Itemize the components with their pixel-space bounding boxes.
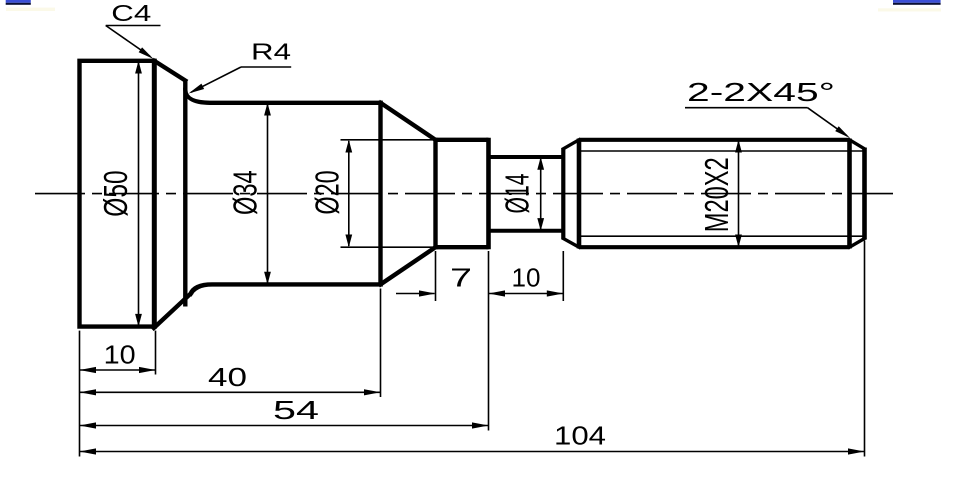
svg-text:M20X2: M20X2 [698, 157, 736, 232]
arrow Ø20 top [345, 140, 352, 153]
flange right face [152, 59, 157, 329]
dimension Ø50 line [138, 62, 140, 325]
collar Ø20 top [436, 138, 489, 142]
Ø34 right face [378, 101, 382, 287]
svg-text:Ø20: Ø20 [309, 170, 347, 214]
svg-text:C4: C4 [111, 0, 151, 26]
leader C4 [106, 26, 161, 62]
arrow 10 left [80, 367, 97, 373]
extension line at x380.5 [380, 289, 382, 398]
flange Ø50 outline [80, 61, 155, 327]
blue bar top-right [878, 0, 941, 12]
right chamfer circle line [847, 139, 852, 249]
svg-text:Ø14: Ø14 [499, 174, 537, 214]
arrow 40 left [80, 389, 97, 395]
arrow 7 [419, 290, 436, 296]
taper top [381, 103, 436, 140]
leader R4 [187, 67, 291, 96]
svg-text:2-2X45°: 2-2X45° [687, 77, 835, 107]
thread right end face [862, 148, 867, 240]
dimension 10 (neck) line [489, 293, 564, 295]
extension lines Ø20 [341, 140, 434, 247]
thread minor diameter top (thin) [580, 150, 865, 152]
svg-text:10: 10 [512, 263, 541, 293]
left chamfer circle line [577, 139, 582, 249]
arrow 104 left [80, 448, 97, 454]
extension line at x563.3 [562, 251, 564, 301]
arrow Ø14 top [537, 157, 544, 170]
svg-text:54: 54 [273, 395, 319, 425]
dimension 54 line [80, 425, 489, 427]
collar Ø20 bottom [436, 245, 489, 249]
left chamfer top edge [563, 140, 579, 149]
right chamfer top edge [850, 140, 865, 149]
extension line at x488.5 [488, 251, 490, 431]
chamfer C4 bottom edge [154, 294, 191, 328]
arrow Ø50 top [135, 61, 142, 74]
arrow Ø14 bottom [537, 218, 544, 231]
extension line at x79.5 [79, 331, 81, 457]
svg-text:Ø50: Ø50 [97, 170, 135, 216]
svg-text:40: 40 [208, 362, 247, 392]
arrow Ø50 bottom [135, 314, 142, 327]
arrow M20X2 top [735, 140, 742, 153]
dimension 104 line [80, 451, 865, 453]
arrow 10 right [139, 367, 156, 373]
dimension 7 line [396, 293, 435, 295]
arrow Ø20 bottom [345, 235, 352, 248]
arrow 54 left [80, 422, 97, 428]
arrow M20X2 bottom [735, 235, 742, 248]
extension line at x435.5 [435, 251, 437, 301]
dimension Ø14 line [540, 158, 542, 230]
dimension 40 line [80, 391, 381, 393]
arrow 10 neck right [547, 290, 564, 296]
arrow 10 neck left [489, 290, 506, 296]
shoulder face [183, 80, 187, 307]
right chamfer bottom edge [850, 239, 865, 248]
arrow Ø34 top [264, 103, 271, 116]
arrow 104 right [848, 448, 865, 454]
left chamfer bottom edge [563, 239, 579, 248]
dimension 10 (flange) line [80, 369, 156, 371]
blue bar top-left [6, 0, 55, 11]
Ø34 top line with R4 fillet [185, 90, 380, 103]
svg-text:R4: R4 [251, 39, 291, 65]
leader 2-2X45 [685, 108, 852, 141]
collar Ø20 right face [486, 138, 491, 250]
collar Ø20 left face [433, 138, 437, 249]
neck Ø14 top [489, 155, 564, 159]
thread left end face [561, 149, 565, 239]
svg-text:104: 104 [554, 420, 606, 450]
svg-text:7: 7 [450, 263, 472, 293]
thread major diameter top [579, 138, 850, 142]
thread minor diameter bottom (thin) [580, 235, 865, 237]
Ø34 bottom line with R4 fillet [191, 284, 381, 293]
extension line at x864.5 [864, 241, 866, 457]
arrow 54 right [472, 422, 489, 428]
thread major diameter bottom [579, 245, 850, 249]
chamfer C4 top edge [154, 61, 185, 81]
taper bottom [381, 247, 436, 284]
svg-text:10: 10 [104, 339, 136, 369]
neck Ø14 bottom [489, 229, 564, 233]
extension line at x155.5 [155, 331, 157, 375]
arrow Ø34 bottom [264, 272, 271, 285]
dimension M20X2 line [738, 141, 740, 246]
dimension Ø20 line [348, 141, 350, 246]
svg-text:Ø34: Ø34 [227, 170, 265, 215]
centerline (axis) [35, 193, 893, 195]
dimension Ø34 line [267, 104, 269, 283]
arrow 40 right [364, 389, 381, 395]
